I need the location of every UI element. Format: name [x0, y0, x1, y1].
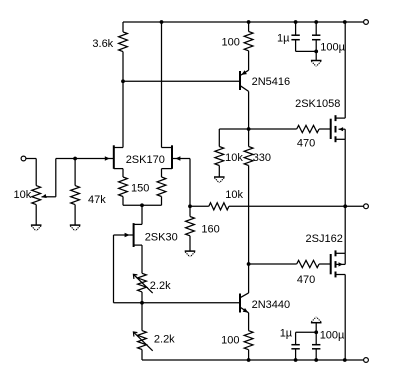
body arrow 2SK1058 [339, 127, 343, 131]
label 100u bottom [320, 330, 345, 342]
resistor 47k [71, 159, 80, 225]
wire J162 drain to bottom rail [344, 275, 346, 361]
label 160 [201, 223, 219, 235]
wire pot1 to mid node [141, 292, 143, 303]
wire junction to 470 top [249, 128, 297, 130]
wire wiper to gate node [56, 159, 75, 197]
wire 2SK30 source to pot [141, 245, 143, 273]
wire caps to ground top [315, 51, 317, 60]
svg-text:2N5416: 2N5416 [252, 76, 291, 88]
gate arrow right JFET [172, 156, 180, 160]
resistor 470 top [297, 125, 319, 132]
wire mid node to pot2 [141, 303, 143, 331]
node top rail junction x=296 [294, 20, 298, 24]
wire 10k bias to ground [218, 166, 220, 177]
terminal V+ (open circle, top right) [364, 20, 369, 25]
node bottom rail junction x=296 [294, 358, 298, 362]
svg-text:2SK170: 2SK170 [126, 154, 165, 166]
wire caps join top [296, 50, 317, 52]
transistor 2SK170 left half (bar, leads) [114, 145, 123, 169]
node driver top junction [247, 127, 251, 131]
svg-text:470: 470 [297, 274, 315, 286]
body arrow 2SJ162 [339, 262, 343, 266]
transistor 2SK170 right half (bar, leads) [162, 145, 173, 169]
transistor 2SJ162 (P-ch MOSFET) [331, 250, 346, 277]
terminal output (open circle) [364, 204, 369, 209]
wire right JFET gate to feedback node [176, 159, 190, 207]
node output junction [343, 204, 347, 208]
wire caps to ground bottom [315, 322, 317, 332]
wire rail corner to R 3.6k [122, 22, 124, 32]
wire junction to 470 bottom [249, 263, 297, 265]
wire caps join bottom [296, 331, 317, 333]
wire pot2 to bottom rail [141, 350, 143, 361]
wire input to pot [26, 159, 37, 186]
resistor 10k feedback [209, 203, 229, 210]
terminal input (open circle) [21, 156, 26, 161]
wire feedback right [229, 205, 345, 207]
wire sources join [123, 204, 162, 206]
wire rail to R100 top [248, 22, 250, 32]
arrow 2.2k upper [133, 274, 152, 293]
wire R100 to bottom rail [248, 350, 250, 360]
label 2SK170 [126, 154, 165, 166]
wire 160 to ground [189, 236, 191, 251]
transistor 2N3440 (NPN) [240, 293, 249, 313]
node feedback junction [188, 204, 192, 208]
svg-text:10k: 10k [225, 189, 243, 201]
resistor 150 left [119, 177, 128, 197]
node mid bias junction [140, 301, 144, 305]
wire junction to 330 [248, 129, 250, 147]
wire 330 to 2N3440 collector [248, 166, 250, 294]
label 10k bias [225, 152, 243, 164]
svg-text:2SK1058: 2SK1058 [295, 98, 340, 110]
node top rail junction x=161 [160, 20, 164, 24]
svg-text:2N3440: 2N3440 [252, 299, 291, 311]
node top rail junction x=316 [314, 20, 318, 24]
resistor 160 [186, 217, 195, 236]
svg-text:10k: 10k [225, 152, 243, 164]
ground bottom caps (pointing up) [311, 317, 322, 323]
resistor 330 [244, 147, 253, 166]
wire base of 2N5416 [123, 80, 239, 82]
wire 2SK30 gate [114, 235, 240, 303]
label 2N5416 [252, 76, 291, 88]
node A junction 3.6k / base wire [121, 79, 125, 83]
label 150 [131, 183, 149, 195]
node bottom rail junction x=316 [314, 358, 318, 362]
node top rail junction x=249 [247, 20, 251, 24]
wire gate node to left JFET gate [75, 158, 110, 160]
resistor 150 right [157, 177, 166, 197]
label 100 bottom [221, 335, 239, 347]
label 100u top [320, 41, 345, 53]
wire source join to 2SK30 drain [141, 205, 143, 224]
node junction 470 bottom branch [247, 262, 251, 266]
label 100 top [222, 37, 240, 49]
label 10k feedback [225, 189, 243, 201]
svg-text:100: 100 [222, 37, 240, 49]
terminal V- (open circle, bottom right) [364, 358, 369, 363]
wire left 150 to join [122, 197, 124, 206]
svg-text:2.2k: 2.2k [154, 334, 175, 346]
emitter arrow 2N3440 [243, 308, 249, 313]
svg-text:3.6k: 3.6k [92, 38, 113, 50]
capacitor 100u top [312, 22, 320, 51]
label 2SJ162 [306, 233, 343, 245]
ground below 47k [70, 225, 81, 231]
node bottom rail junction x=249 [247, 358, 251, 362]
resistor 3.6k [119, 32, 128, 52]
capacitor 1u bottom [291, 332, 299, 360]
potentiometer 10k input [32, 186, 41, 205]
svg-text:470: 470 [297, 138, 315, 150]
node sources join [140, 203, 144, 207]
wire K1058 source to output [344, 139, 346, 206]
arrow 2.2k lower [133, 332, 152, 351]
wire left source lead [122, 169, 124, 177]
node bottom rail junction x=345 [343, 358, 347, 362]
svg-text:2SK30: 2SK30 [145, 232, 178, 244]
wire 2N3440 emitter to R100 [248, 313, 250, 331]
ground below input pot [31, 225, 42, 231]
resistor 470 bottom [297, 260, 319, 267]
svg-text:150: 150 [131, 183, 149, 195]
wire 3.6k to 2SK170 left drain [122, 52, 124, 148]
pot wiper arrow [41, 194, 56, 198]
svg-text:1µ: 1µ [277, 33, 290, 45]
wire K1058 drain to rail [344, 22, 346, 118]
svg-text:47k: 47k [88, 194, 106, 206]
ground top caps [311, 61, 322, 67]
label 10k input pot [14, 189, 32, 201]
wire output stub [345, 205, 363, 207]
wire V- bottom rail [142, 359, 364, 361]
label 3.6k [92, 38, 113, 50]
label 47k [88, 194, 106, 206]
label 1u top [277, 33, 290, 45]
label 2.2k lower [154, 334, 175, 346]
svg-text:100µ: 100µ [320, 330, 345, 342]
gate arrow left JFET [105, 156, 114, 160]
potentiometer 2.2k upper [138, 273, 147, 292]
wire feedback node to 160 [189, 206, 191, 216]
transistor 2SK30 (JFET) [134, 223, 142, 247]
svg-text:100µ: 100µ [320, 41, 345, 53]
resistor 10k bias [215, 147, 224, 166]
wire feedback left [190, 205, 209, 207]
wire 470 to K1058 gate [319, 128, 331, 130]
label 330 [253, 152, 271, 164]
wire junction to 10k bias [219, 129, 248, 147]
svg-text:10k: 10k [14, 189, 32, 201]
svg-text:2.2k: 2.2k [150, 280, 171, 292]
potentiometer 2.2k lower [138, 331, 147, 350]
capacitor 100u bottom [312, 332, 320, 360]
label 2N3440 [252, 299, 291, 311]
transistor 2N5416 (PNP) [240, 70, 249, 91]
node caps join top [314, 50, 318, 54]
ground below 10k bias [214, 177, 225, 183]
wire right 150 to join [161, 197, 163, 206]
wire 470 to J162 gate [319, 263, 331, 265]
ground below 160 [185, 251, 196, 257]
label 2.2k upper [150, 280, 171, 292]
node caps join bottom [314, 330, 318, 334]
wire 2N5416 collector to junction [248, 91, 250, 129]
resistor 100 top [244, 32, 253, 51]
svg-text:1µ: 1µ [280, 328, 293, 340]
wire R100 to 2N5416 emitter [248, 51, 250, 70]
wire V+ top rail [123, 21, 364, 23]
svg-text:2SJ162: 2SJ162 [306, 233, 343, 245]
wire right source lead [161, 169, 163, 177]
label 1u bottom [280, 328, 293, 340]
svg-text:160: 160 [201, 223, 219, 235]
label 2SK1058 [295, 98, 340, 110]
label 470 top [297, 138, 315, 150]
wire J162 source to output [344, 206, 346, 253]
svg-text:100: 100 [221, 335, 239, 347]
node input gate junction [73, 157, 77, 161]
node top rail junction x=345 [343, 20, 347, 24]
resistor 100 bottom [244, 331, 253, 350]
capacitor 1u top [291, 22, 299, 51]
wire rail to 2SK170 right drain [161, 22, 163, 148]
wire pot bottom [35, 205, 37, 225]
gate arrow 2SK30 [125, 233, 134, 237]
svg-text:330: 330 [253, 152, 271, 164]
label 470 bottom [297, 274, 315, 286]
emitter arrow 2N5416 [241, 70, 247, 75]
transistor 2SK1058 (N-ch MOSFET) [331, 115, 346, 142]
label 2SK30 [145, 232, 178, 244]
